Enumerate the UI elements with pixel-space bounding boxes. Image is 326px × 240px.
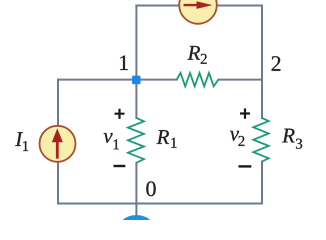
node label 0 <box>146 181 155 196</box>
node 0 blue marker (cut off at bottom) <box>114 215 158 240</box>
label R3 <box>282 129 295 143</box>
wire node1 down to R1 <box>135 80 137 118</box>
wire bottom rail <box>58 203 262 205</box>
resistor R1 <box>128 118 144 163</box>
current source I1 (circle) <box>40 126 76 162</box>
wire node 0 stub to blue marker <box>135 204 137 218</box>
node 1 junction dot <box>132 76 141 85</box>
resistor R3 <box>253 118 268 162</box>
plus sign (v1) <box>115 109 125 119</box>
wire middle rail right (R2 to node 2) <box>218 79 262 81</box>
minus sign (v2) <box>239 165 252 167</box>
node label 1 <box>120 55 128 70</box>
current source top (circle) <box>179 0 217 24</box>
wire middle rail left (node1 to R2) <box>58 79 177 81</box>
resistor R2 <box>177 73 219 86</box>
wire R1 to bottom rail <box>135 163 137 204</box>
wire top rail <box>136 5 262 7</box>
minus sign (v1) <box>114 165 126 167</box>
label I1 <box>15 132 23 146</box>
plus sign (v2) <box>240 108 250 118</box>
wire right rail upper (node 2 to top) <box>261 6 263 119</box>
label R1 <box>157 130 170 144</box>
wire node1 to top-left corner <box>135 6 137 80</box>
label R2 <box>188 46 201 60</box>
label v2 <box>230 131 239 141</box>
current source top arrow (points right) <box>184 1 213 9</box>
node label 2 <box>272 56 281 71</box>
wire right rail lower (R3 to bottom) <box>261 162 263 204</box>
current source I1 arrow (points up) <box>52 128 63 158</box>
wire left rail through I1 <box>57 80 59 204</box>
label v1 <box>104 133 113 143</box>
